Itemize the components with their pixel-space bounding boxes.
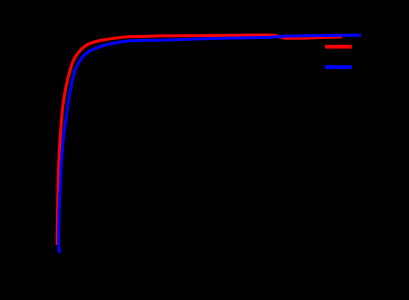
legend blue line [325, 65, 352, 69]
blue curve [59, 35, 361, 252]
red curve [57, 35, 342, 245]
legend red line [325, 45, 352, 49]
